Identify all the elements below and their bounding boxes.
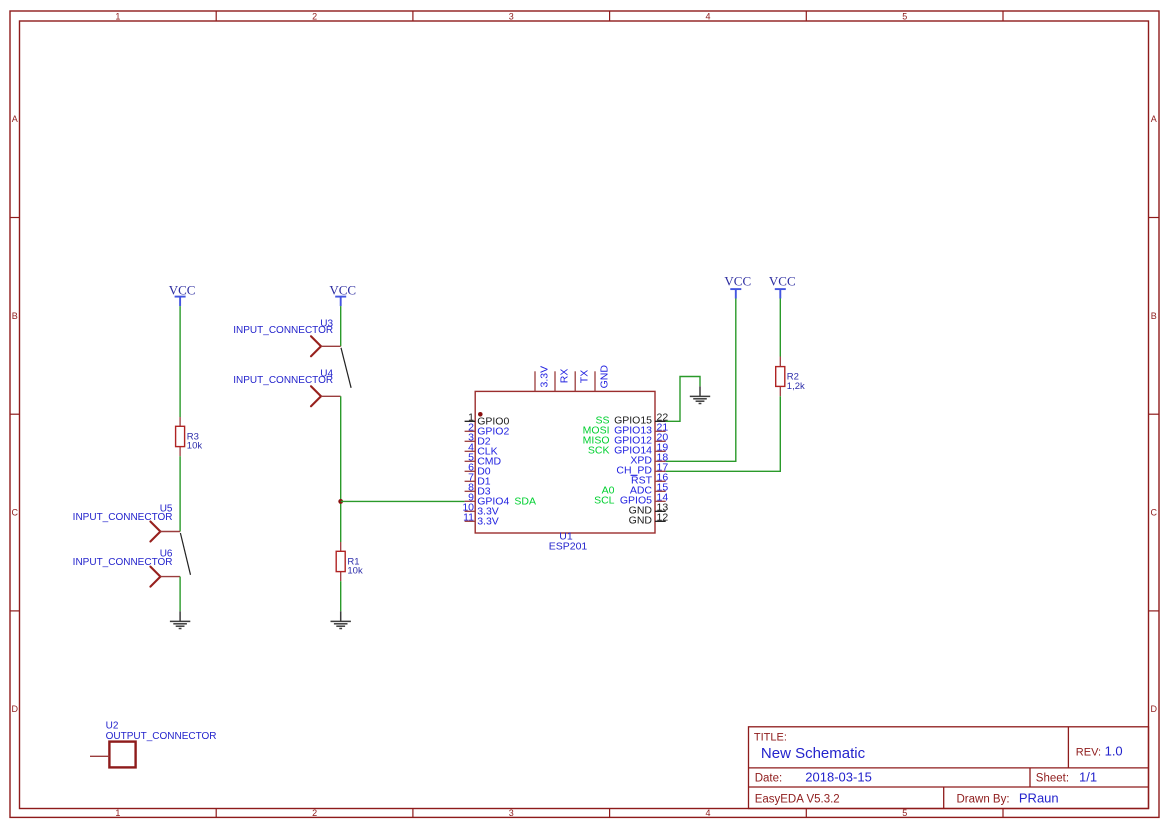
svg-text:INPUT_CONNECTOR: INPUT_CONNECTOR	[73, 557, 173, 568]
wire VCC to pin 18 XPD	[666, 299, 736, 462]
svg-text:2018-03-15: 2018-03-15	[805, 770, 872, 785]
svg-text:3.3V: 3.3V	[539, 366, 551, 388]
connector U6 pin lead	[160, 576, 180, 578]
svg-text:1/1: 1/1	[1079, 770, 1097, 785]
ground (below R1)	[331, 611, 351, 628]
svg-text:VCC: VCC	[329, 283, 356, 298]
wire R1 to ground	[340, 581, 342, 611]
connector U4 pin lead	[321, 395, 341, 397]
ground (left, below U6)	[170, 611, 190, 628]
svg-text:REV:: REV:	[1076, 747, 1101, 759]
power flag VCC (net VCC, above R3)	[169, 283, 196, 306]
IC U1 right pin stubs	[655, 421, 666, 521]
IC U1 top pin stubs	[535, 371, 595, 391]
top ruler ticks	[216, 11, 1003, 21]
IC U1 ESP201 body	[475, 391, 655, 533]
svg-text:10k: 10k	[187, 441, 203, 452]
svg-text:INPUT_CONNECTOR: INPUT_CONNECTOR	[73, 512, 173, 523]
svg-text:VCC: VCC	[169, 283, 196, 298]
svg-text:5: 5	[902, 808, 907, 818]
left ruler letters	[11, 114, 18, 714]
title block outline	[749, 727, 1149, 809]
svg-text:5: 5	[902, 11, 907, 21]
svg-text:A: A	[12, 114, 18, 124]
IC U1 right pin numbers	[657, 412, 669, 524]
svg-text:C: C	[1150, 508, 1157, 518]
right ruler ticks	[1149, 218, 1160, 611]
wire pin 22 GPIO15 to ground	[666, 377, 700, 422]
resistor R2	[776, 357, 785, 397]
svg-text:4: 4	[705, 11, 710, 21]
junction node dot	[338, 499, 343, 504]
svg-text:TITLE:: TITLE:	[754, 731, 787, 743]
svg-text:3: 3	[509, 808, 514, 818]
svg-text:PRaun: PRaun	[1019, 790, 1059, 805]
connector U2 body	[109, 742, 135, 768]
connector U3 pin lead	[321, 345, 341, 347]
svg-text:1: 1	[115, 11, 120, 21]
svg-text:OUTPUT_CONNECTOR: OUTPUT_CONNECTOR	[106, 731, 217, 742]
svg-text:ESP201: ESP201	[549, 541, 588, 553]
svg-text:3.3V: 3.3V	[477, 516, 499, 528]
wire R2 to pin 17 CH_PD	[666, 396, 781, 471]
connector U2 pin lead	[90, 755, 109, 757]
resistor R3	[176, 417, 185, 456]
IC U1 left pin names	[477, 416, 509, 528]
svg-text:B: B	[12, 311, 18, 321]
svg-text:D: D	[1150, 704, 1157, 714]
power flag VCC (net VCC, to pin 18 XPD)	[724, 274, 751, 299]
left ruler ticks	[10, 218, 20, 611]
wire VCC to U3 junction	[340, 306, 342, 346]
svg-text:New Schematic: New Schematic	[761, 745, 866, 762]
svg-text:Drawn By:: Drawn By:	[957, 793, 1010, 805]
svg-text:VCC: VCC	[769, 274, 796, 289]
svg-text:1.0: 1.0	[1105, 744, 1123, 759]
svg-text:INPUT_CONNECTOR: INPUT_CONNECTOR	[233, 325, 333, 336]
svg-text:SDA: SDA	[514, 496, 536, 508]
svg-text:INPUT_CONNECTOR: INPUT_CONNECTOR	[233, 375, 333, 386]
bottom ruler ticks	[216, 809, 1003, 818]
wire U4 junction down to R1	[340, 396, 342, 542]
svg-text:4: 4	[705, 808, 710, 818]
svg-text:GND: GND	[629, 514, 653, 526]
svg-text:D: D	[11, 704, 18, 714]
svg-text:RX: RX	[559, 369, 571, 384]
connector U4 chevron	[311, 386, 321, 406]
svg-text:SCL: SCL	[594, 494, 615, 506]
svg-text:EasyEDA V5.3.2: EasyEDA V5.3.2	[755, 793, 840, 805]
wire R3 to U5 junction	[179, 456, 181, 531]
connector U6 chevron	[150, 567, 160, 587]
wire U6 to ground	[179, 577, 181, 612]
svg-text:Date:: Date:	[755, 773, 783, 785]
switch lever from U5	[180, 533, 190, 575]
svg-text:12: 12	[657, 512, 669, 524]
connector U5 pin lead	[160, 531, 180, 533]
RST overline	[631, 474, 638, 476]
connector U5 chevron	[150, 522, 160, 542]
svg-text:VCC: VCC	[724, 274, 751, 289]
svg-text:2: 2	[312, 11, 317, 21]
svg-text:A: A	[1151, 114, 1157, 124]
wire VCC to R3	[179, 306, 181, 417]
IC U1 left pin stubs	[465, 421, 476, 521]
svg-text:3: 3	[509, 11, 514, 21]
svg-text:1: 1	[115, 808, 120, 818]
top ruler numbers	[115, 11, 907, 21]
svg-text:11: 11	[463, 512, 474, 524]
IC U1 pin-1 orientation dot	[478, 412, 483, 417]
connector U3 chevron	[311, 336, 321, 356]
svg-text:Sheet:: Sheet:	[1036, 773, 1069, 785]
svg-text:2: 2	[312, 808, 317, 818]
svg-text:10k: 10k	[347, 566, 363, 577]
right ruler letters	[1150, 114, 1157, 714]
power flag VCC (net VCC, above U3)	[329, 283, 356, 306]
ground (near pin 22)	[690, 386, 710, 403]
svg-text:TX: TX	[579, 370, 591, 383]
bottom ruler numbers	[115, 808, 907, 818]
power flag VCC (net VCC, above R2)	[769, 274, 796, 299]
svg-text:B: B	[1151, 311, 1157, 321]
IC U1 right pin names	[614, 414, 653, 526]
wire VCC through R2 to pin 17 CH_PD	[779, 299, 781, 357]
resistor R1	[336, 542, 345, 581]
wire node to chip pin 9 GPIO4	[341, 500, 465, 502]
svg-text:C: C	[11, 508, 18, 518]
switch lever from U3	[341, 348, 351, 388]
IC U1 left pin numbers	[462, 412, 474, 524]
svg-text:1,2k: 1,2k	[787, 381, 805, 392]
svg-text:GND: GND	[599, 365, 611, 389]
svg-text:SCK: SCK	[588, 444, 610, 456]
